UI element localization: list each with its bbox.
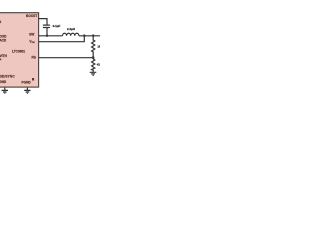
capacitor CB 0.1uF plates — [43, 25, 50, 27]
wire VON pin to VOUT rail — [39, 36, 85, 41]
svg-text:1M: 1M — [97, 44, 100, 48]
svg-text:FB: FB — [32, 56, 37, 60]
ground symbol GND — [2, 90, 8, 93]
junction dot SW/CB — [46, 34, 49, 37]
junction dot FB/divider — [92, 56, 95, 59]
svg-text:DE/SYNC: DE/SYNC — [0, 74, 15, 78]
junction dot VOUT/VON — [83, 34, 86, 37]
inductor L1 2.2uH — [63, 33, 79, 36]
resistor R1 top feedback divider — [92, 36, 95, 58]
svg-text:BOOST: BOOST — [26, 14, 37, 18]
resistor R2 bottom feedback divider — [92, 59, 95, 72]
svg-text:VITH: VITH — [0, 54, 7, 58]
wire PGND pin stub — [26, 88, 28, 90]
svg-text:SW: SW — [29, 32, 34, 36]
wire VOUT rail — [79, 35, 100, 37]
wire SW pin to inductor L1 — [39, 35, 63, 37]
junction dot VOUT/R1 — [92, 34, 95, 37]
svg-text:ACK: ACK — [0, 38, 7, 42]
svg-text:412k: 412k — [97, 63, 100, 67]
wire GND pin stub — [4, 88, 6, 90]
pin number blob near PGND — [32, 78, 34, 81]
stray fragment below ITH — [0, 59, 1, 61]
wire BOOST pin to capacitor CB — [39, 19, 47, 25]
ground symbol PGND — [24, 90, 30, 93]
svg-text:0.1µF: 0.1µF — [53, 24, 61, 28]
wire FB pin to divider node — [39, 57, 94, 59]
svg-text:GND: GND — [0, 80, 7, 84]
svg-text:LTC3601: LTC3601 — [12, 50, 25, 54]
wire capacitor CB to SW node — [46, 28, 48, 36]
IC U1 LTC3601 body — [0, 13, 39, 87]
svg-text:2.2µH: 2.2µH — [67, 27, 75, 31]
svg-text:PGND: PGND — [22, 81, 32, 85]
ground symbol below R2 — [90, 72, 97, 75]
